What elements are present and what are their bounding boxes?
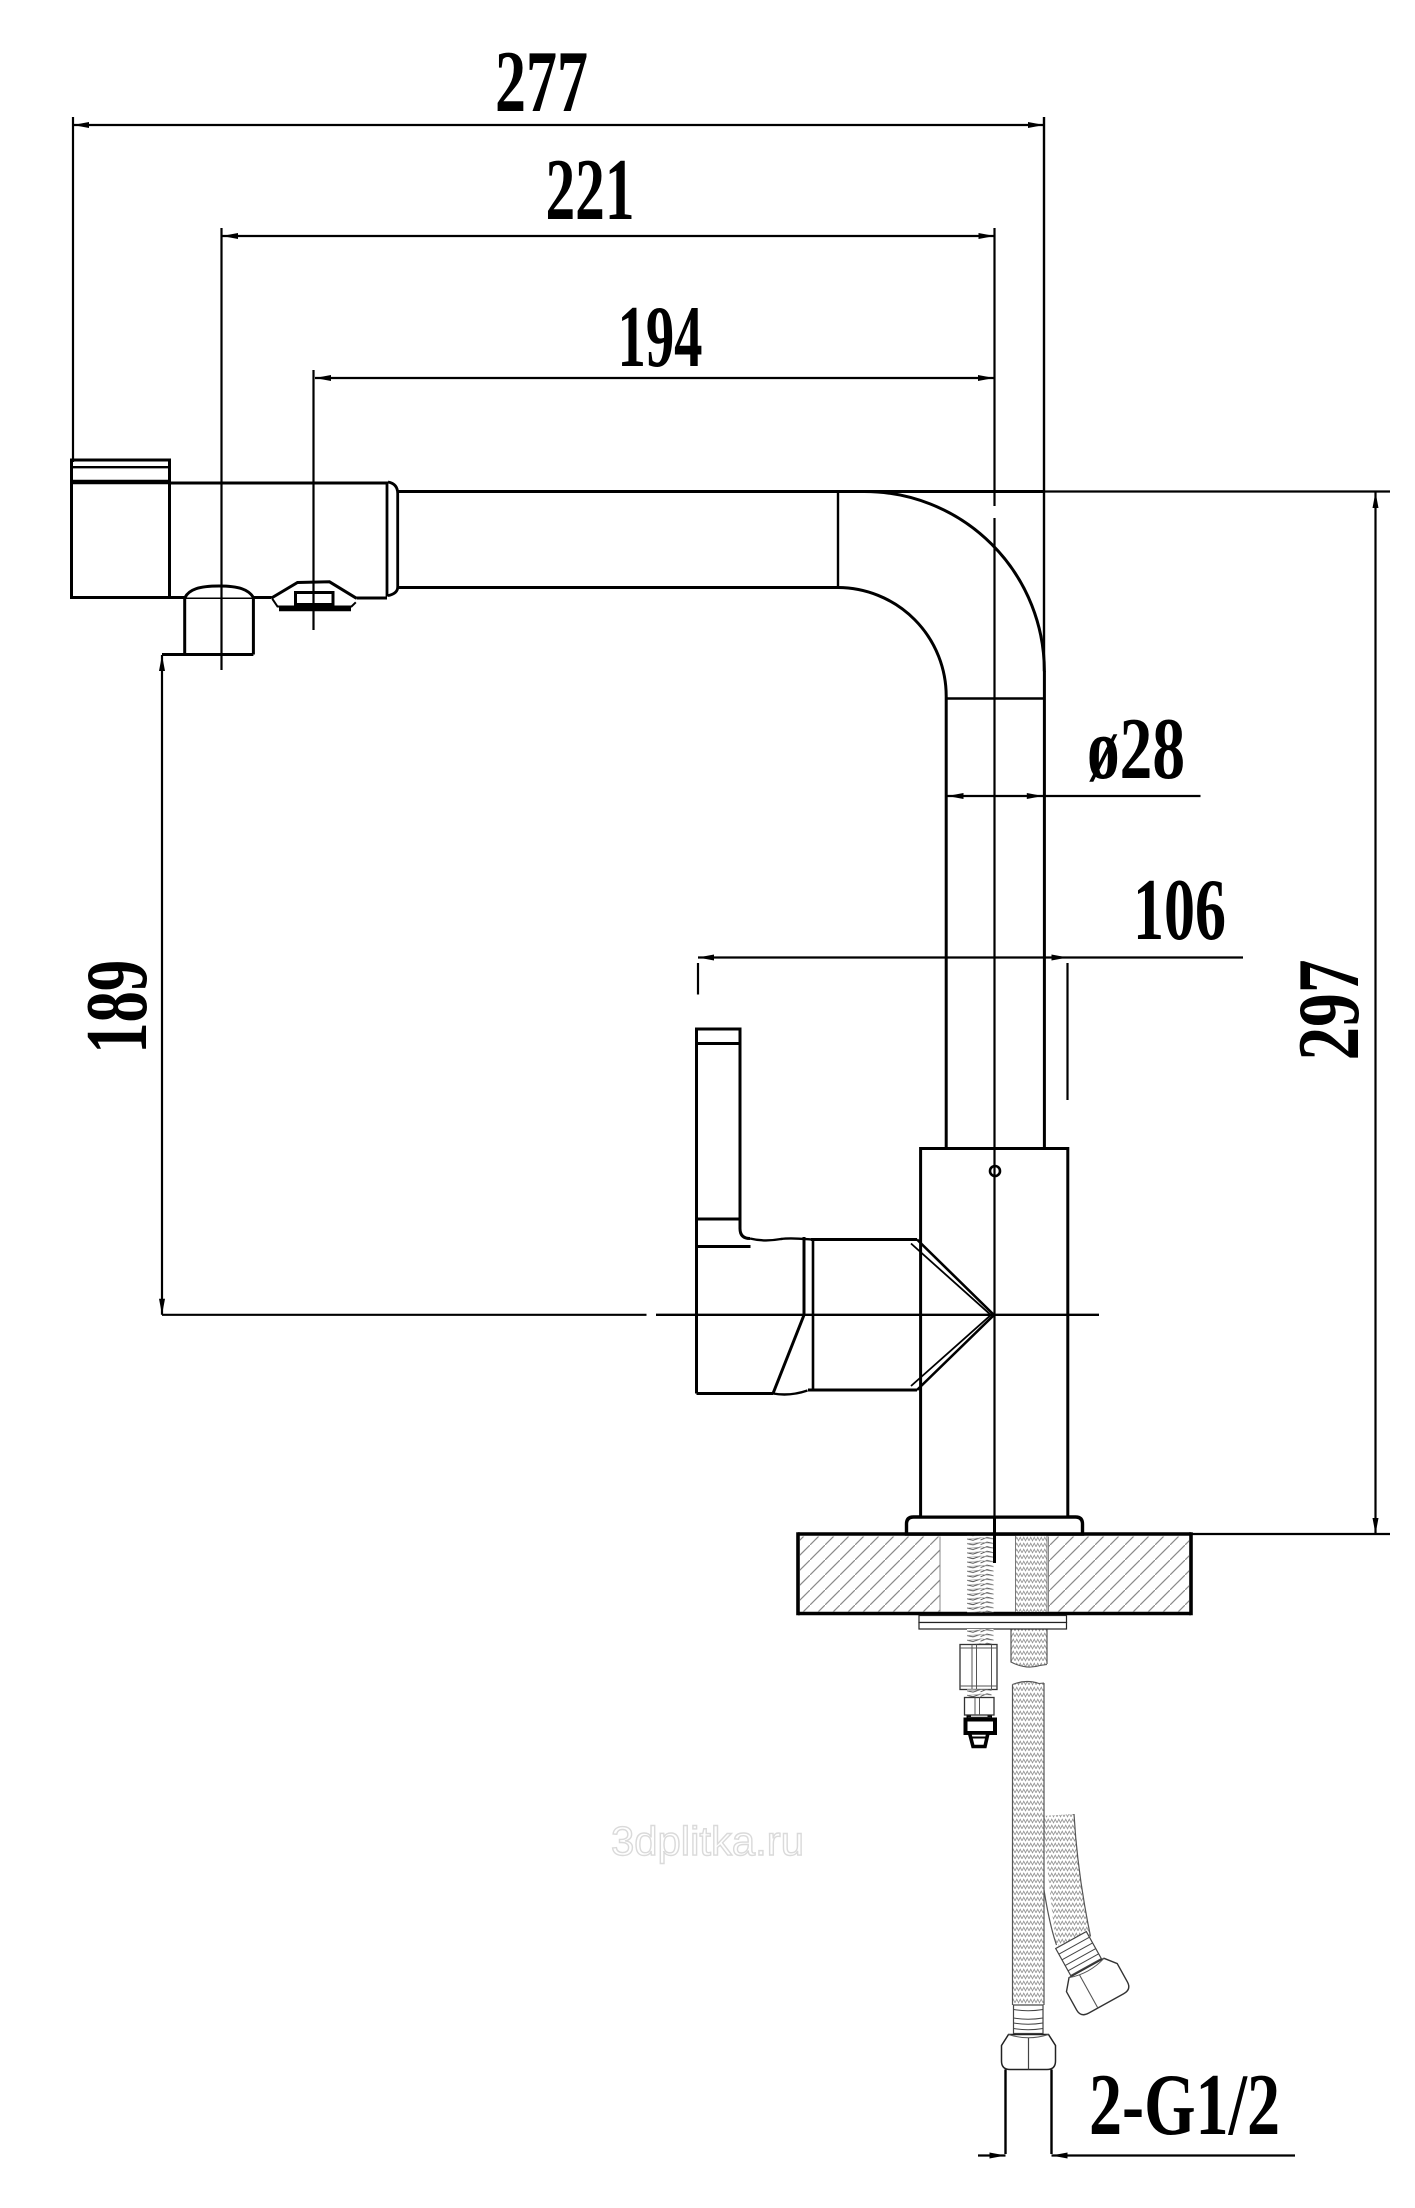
centerline vertical of riser/body [993,228,995,1563]
diagonal braided hose (behind vertical hose) [1042,1814,1091,1946]
svg-text:ø28: ø28 [1087,701,1185,798]
spray nozzle lens under spout [272,582,357,609]
vertical braided hose: long lower segment [1013,1681,1045,2005]
mounting stud threads inside countertop [967,1536,994,1613]
vertical braided hose: segment below countertop with break [1011,1614,1047,1668]
handle hub [697,1237,812,1395]
vertical hose ribbed collar [1014,2005,1044,2034]
stud end cap (thick) [966,1716,996,1734]
svg-text:106: 106 [1133,862,1226,959]
aerator end cap [72,460,170,598]
dimension 194 [314,289,995,630]
countertop slab (section) [798,1532,1191,1615]
svg-text:189: 189 [69,960,166,1054]
dimension 277 [73,34,1044,671]
spout tube [170,483,389,598]
dimension 2-G1/2 [978,2057,1295,2159]
aerator dome outlet [185,586,254,598]
pipe bend elbow [838,491,1044,696]
svg-text:297: 297 [1281,960,1378,1061]
riser pipe [946,671,1044,1149]
handle lever cap [697,1029,741,1044]
centerline horizontal through handle hub (189 reference) [162,1314,1099,1316]
faucet body column [921,1149,1068,1518]
washer stack under countertop [919,1616,1067,1630]
dimension ø28 [948,701,1201,799]
countertop clearance hole edges [939,1537,941,1612]
svg-text:221: 221 [546,142,635,239]
dimension 189 [69,655,166,1315]
short threads below coupling nut [967,1690,992,1698]
dimension 221 [222,142,995,670]
horizontal tube [398,492,1045,588]
diverter block under spout [162,598,253,655]
vertical hose hex nut G1/2 [1002,2035,1056,2070]
stud end cone tip (thick) [970,1733,989,1747]
hose braid inside countertop [1016,1536,1048,1612]
small hex on stud [965,1698,995,1716]
svg-text:3dplitka.ru: 3dplitka.ru [611,1818,804,1864]
set screw dot on body [990,1166,1000,1176]
dimension 297 [1045,492,1391,1535]
svg-text:2-G1/2: 2-G1/2 [1089,2057,1280,2154]
cone adapter between handle and body [808,1240,994,1391]
base flange on countertop [907,1517,1083,1534]
hose male thread stub [1004,2070,1006,2155]
handle lever [697,1044,751,1247]
diagonal hose collar and nut G1/2 [1046,1926,1132,2018]
joint sleeve between spout and tube [387,482,398,597]
svg-text:194: 194 [618,289,703,386]
dimension 106 [698,862,1243,1100]
stud threads below washer [967,1629,994,1645]
svg-text:277: 277 [495,34,588,131]
coupling hex nut on stud [960,1645,997,1690]
